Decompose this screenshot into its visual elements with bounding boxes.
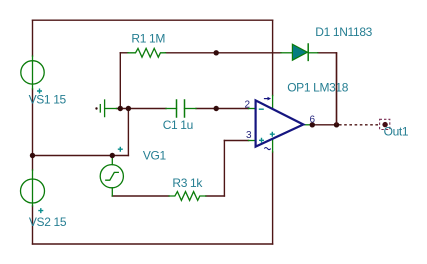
svg-text:C1 1u: C1 1u bbox=[163, 118, 193, 132]
svg-text:6: 6 bbox=[310, 115, 316, 126]
svg-text:VS2 15: VS2 15 bbox=[29, 215, 67, 229]
svg-text:D1 1N1183: D1 1N1183 bbox=[315, 25, 372, 39]
svg-text:VG1: VG1 bbox=[143, 149, 167, 163]
svg-text:VS1 15: VS1 15 bbox=[29, 93, 67, 107]
svg-text:Out1: Out1 bbox=[384, 124, 409, 138]
svg-text:3: 3 bbox=[246, 130, 252, 141]
svg-text:R3 1k: R3 1k bbox=[172, 176, 203, 190]
svg-text:OP1 LM318: OP1 LM318 bbox=[287, 81, 349, 95]
svg-text:R1 1M: R1 1M bbox=[131, 31, 165, 45]
svg-text:2: 2 bbox=[245, 100, 251, 111]
